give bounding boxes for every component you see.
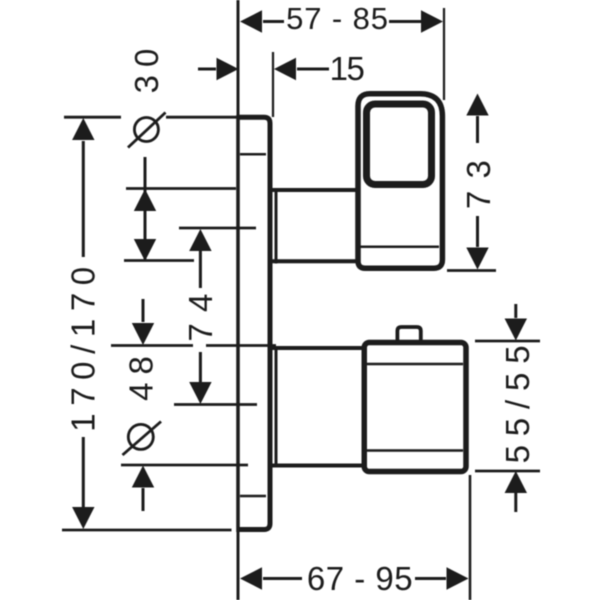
- svg-text:73: 73: [460, 148, 497, 209]
- svg-text:170/170: 170/170: [65, 259, 102, 432]
- svg-text:67 - 95: 67 - 95: [307, 560, 413, 597]
- svg-text:74: 74: [182, 282, 219, 341]
- svg-text:30: 30: [128, 41, 165, 94]
- svg-text:57 - 85: 57 - 85: [286, 1, 389, 36]
- svg-text:48: 48: [123, 348, 160, 401]
- svg-text:55/55: 55/55: [499, 337, 536, 464]
- svg-text:15: 15: [330, 50, 364, 87]
